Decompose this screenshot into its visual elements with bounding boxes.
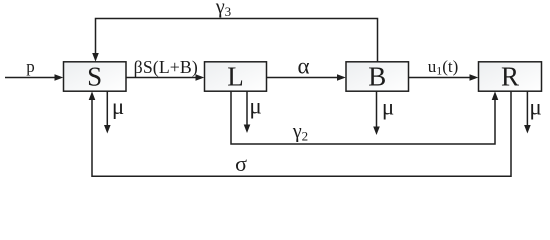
box L (latent compartment) (205, 62, 267, 92)
wire mu death arrow below B (373, 91, 380, 135)
svg-text:L: L (227, 62, 244, 92)
svg-text:μ: μ (382, 95, 394, 120)
svg-text:μ: μ (112, 94, 124, 119)
wire gamma3 feedback from B top to S top (92, 19, 377, 62)
wire mu death arrow below S (104, 91, 111, 133)
svg-text:μ: μ (529, 95, 541, 120)
svg-text:R: R (501, 62, 519, 92)
wire mu death arrow below R (524, 91, 531, 133)
wire L to B arrow (267, 74, 346, 81)
svg-text:βS(L+B): βS(L+B) (134, 57, 198, 78)
box S (susceptible compartment) (64, 62, 127, 92)
wire gamma2 from L bottom to R bottom (231, 91, 498, 144)
svg-text:B: B (368, 62, 386, 92)
wire sigma feedback from R bottom to S bottom (89, 91, 511, 176)
svg-text:γ2: γ2 (292, 121, 308, 144)
box B (infectious compartment) (346, 62, 409, 92)
svg-text:α: α (297, 54, 309, 79)
wire S to L arrow (126, 74, 204, 81)
box R (recovered compartment) (479, 62, 542, 92)
svg-text:u1(t): u1(t) (428, 57, 459, 78)
svg-text:γ3: γ3 (215, 0, 231, 19)
svg-text:S: S (87, 62, 102, 92)
wire p input arrow into S (5, 74, 63, 81)
svg-text:p: p (26, 57, 35, 76)
wire mu death arrow below L (244, 91, 251, 133)
svg-text:μ: μ (249, 94, 261, 119)
wire B to R arrow (409, 74, 479, 81)
svg-text:σ: σ (235, 151, 247, 176)
